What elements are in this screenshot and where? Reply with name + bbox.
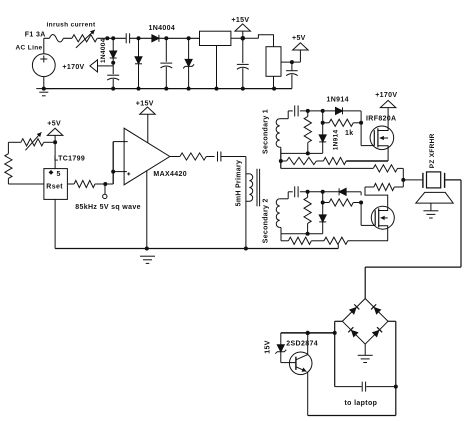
wire bridge right out: [388, 321, 398, 415]
label +15V: [231, 17, 249, 24]
capacitor C3 filter: [160, 38, 172, 88]
node dots top rail: [105, 36, 190, 40]
capacitor C8 series: [295, 186, 298, 197]
resistor R4: [5, 154, 12, 179]
resistor R11 vertical: [304, 192, 311, 236]
resistor R10: [323, 157, 388, 164]
inrush current limiter R1: [72, 30, 97, 48]
svg-text:PZ XFRHR: PZ XFRHR: [429, 133, 436, 168]
label Secondary 1: [263, 109, 270, 154]
power +5V symbol: [281, 43, 308, 64]
svg-text:Secondary 2: Secondary 2: [262, 198, 269, 243]
svg-text:1N4004: 1N4004: [149, 25, 176, 32]
wire transducer right: [365, 180, 461, 299]
wire cell2 top: [288, 190, 361, 196]
wire AC bottom bus: [42, 87, 292, 91]
op-amp U1 MAX4420: [124, 128, 170, 185]
bridge diode D10: [348, 327, 358, 337]
svg-text:+5V: +5V: [47, 121, 61, 128]
svg-text:LTC1799: LTC1799: [54, 156, 85, 163]
svg-text:IRF820A: IRF820A: [366, 116, 396, 123]
zener Z1: [183, 38, 194, 88]
svg-text:85kHz 5V sq wave: 85kHz 5V sq wave: [75, 204, 141, 211]
node +170V tap arrow: [90, 60, 113, 72]
resistor R6 output: [170, 153, 215, 160]
bridge rectifier frame: [342, 299, 388, 345]
transistor Q1 IRF820A: [361, 126, 394, 161]
label AC Line: [16, 45, 43, 52]
AC source V1: [32, 38, 55, 88]
label PZ XFRHR: [429, 133, 436, 168]
regulator U2 box: [200, 31, 231, 88]
transistor Q2 IRF820A: [371, 206, 394, 241]
svg-text:+170V: +170V: [62, 64, 84, 71]
diode D6 1N914: [339, 188, 346, 195]
resistor R7 vertical: [304, 111, 311, 155]
wire cell2 rail: [281, 233, 323, 235]
label 1N4004 vertical: [100, 38, 107, 63]
fuse F1: [49, 35, 63, 43]
label 2SD2874: [286, 340, 318, 347]
resistor R8 1k: [323, 119, 363, 126]
diode D3 1N4004 horizontal: [152, 35, 159, 42]
ground below horn: [423, 203, 438, 218]
diode D2 1N4004 vertical: [135, 38, 142, 88]
label IRF820A: [366, 116, 396, 123]
diode D1 1N4004 vertical: [110, 38, 117, 74]
svg-text:5: 5: [57, 171, 61, 178]
wire bus3: [55, 199, 338, 250]
svg-text:inrush current: inrush current: [47, 22, 96, 29]
label 15V: [265, 340, 272, 353]
wire R3 feed: [281, 161, 374, 168]
resistor divider R2 box: [266, 47, 281, 89]
label 1k: [345, 130, 354, 137]
label LTC1799: [54, 156, 85, 163]
wire bridge left out: [333, 321, 343, 386]
speaker horn: [416, 192, 453, 203]
pot R3: [21, 132, 57, 150]
svg-text:AC Line: AC Line: [16, 45, 43, 52]
svg-text:+170V: +170V: [375, 92, 397, 99]
resistor R15: [373, 165, 403, 180]
bridge diode D8: [349, 304, 359, 314]
svg-text:+15V: +15V: [136, 100, 154, 107]
wire primary left: [245, 157, 247, 249]
inductor L3 secondary 2: [276, 192, 288, 234]
wire regulator out: [231, 35, 274, 47]
resistor R16: [365, 178, 405, 191]
resistor R14: [324, 237, 388, 248]
wire AC line top rail: [44, 37, 200, 39]
label +170V left: [62, 64, 84, 71]
power +15V symbol 2: [140, 107, 156, 143]
wire pot to Rset: [8, 142, 44, 184]
label inrush current: [47, 22, 96, 29]
svg-text:Rset: Rset: [46, 184, 63, 191]
resistor R9: [279, 149, 324, 164]
label 85kHz 5V sq wave: [75, 204, 141, 211]
label 5mH Primary: [236, 160, 243, 207]
svg-text:+15V: +15V: [231, 17, 249, 24]
label F1 3A: [25, 32, 46, 39]
ground below AC source: [36, 89, 51, 96]
plus marks inputs: [127, 172, 130, 175]
svg-text:1N914: 1N914: [327, 97, 349, 104]
svg-text:Secondary 1: Secondary 1: [263, 109, 270, 154]
transformer core: [257, 169, 260, 207]
svg-text:+5V: +5V: [292, 35, 306, 42]
pin 5 marker: [49, 170, 61, 178]
capacitor C4 filter: [237, 38, 249, 88]
node output testpoint: [103, 182, 108, 199]
label +170V right: [375, 92, 397, 99]
svg-text:15V: 15V: [265, 340, 272, 353]
svg-text:F1 3A: F1 3A: [25, 32, 46, 39]
label to laptop: [345, 400, 378, 407]
capacitor C1 series: [126, 33, 129, 43]
resistor R12 1k: [323, 199, 363, 206]
label Rset: [46, 184, 63, 191]
IC U3 LTC1799 box: [44, 169, 68, 200]
label 1N914 vertical cell1: [332, 129, 339, 150]
capacitor C5: [286, 62, 298, 89]
diode D4 1N914: [336, 107, 343, 114]
capacitor C7 series: [295, 105, 298, 116]
diode D5 1N914 vertical: [319, 111, 326, 153]
capacitor C9 output: [335, 382, 396, 392]
resistor R13: [281, 234, 324, 245]
wire opamp ground: [146, 171, 148, 249]
wire M2 drain: [365, 187, 388, 207]
svg-text:5mH Primary: 5mH Primary: [236, 160, 243, 207]
svg-text:1k: 1k: [345, 130, 354, 137]
wire zener branch: [281, 331, 335, 335]
wire opamp input: [111, 142, 128, 184]
inductor L1 primary: [246, 174, 253, 202]
wire emitter to laptop: [308, 415, 396, 417]
svg-text:1N4004: 1N4004: [100, 38, 107, 63]
label 1N914 cell1: [327, 97, 349, 104]
wire cell1 rail: [281, 152, 323, 154]
transistor Q3 2SD2874: [289, 333, 312, 416]
wire M2 gate: [361, 203, 375, 226]
bridge diode D11: [372, 327, 382, 337]
diode D7 1N914 vertical: [319, 192, 326, 234]
svg-text:MAX4420: MAX4420: [153, 171, 187, 178]
inductor L2 secondary 1: [276, 111, 288, 168]
wire cell1 top: [288, 109, 361, 146]
power +5V symbol left: [47, 128, 63, 168]
label +15V 2: [136, 100, 154, 107]
wire pot right: [44, 141, 55, 143]
capacitor C2 filter: [107, 75, 119, 88]
label +5V left: [47, 121, 61, 128]
piezo transducer PZ1: [423, 172, 445, 188]
resistor R5 output: [67, 180, 113, 187]
wire to transducer: [403, 179, 423, 181]
bridge diode D9: [371, 304, 381, 314]
node dots bus1: [111, 87, 276, 91]
power +170V symbol: [380, 100, 396, 126]
label Secondary 2: [262, 198, 269, 243]
svg-text:2SD2874: 2SD2874: [286, 340, 318, 347]
zener Z2 15V: [275, 333, 296, 363]
capacitor C6 series: [218, 152, 246, 162]
svg-text:1N914: 1N914: [332, 129, 339, 150]
ground below bridge: [358, 344, 373, 362]
svg-text:to laptop: to laptop: [345, 400, 378, 407]
label MAX4420: [153, 171, 187, 178]
label 1N4004 top: [149, 25, 176, 32]
power +15V symbol: [235, 24, 251, 38]
ground below bus3: [140, 256, 155, 263]
label +5V right: [292, 35, 306, 42]
